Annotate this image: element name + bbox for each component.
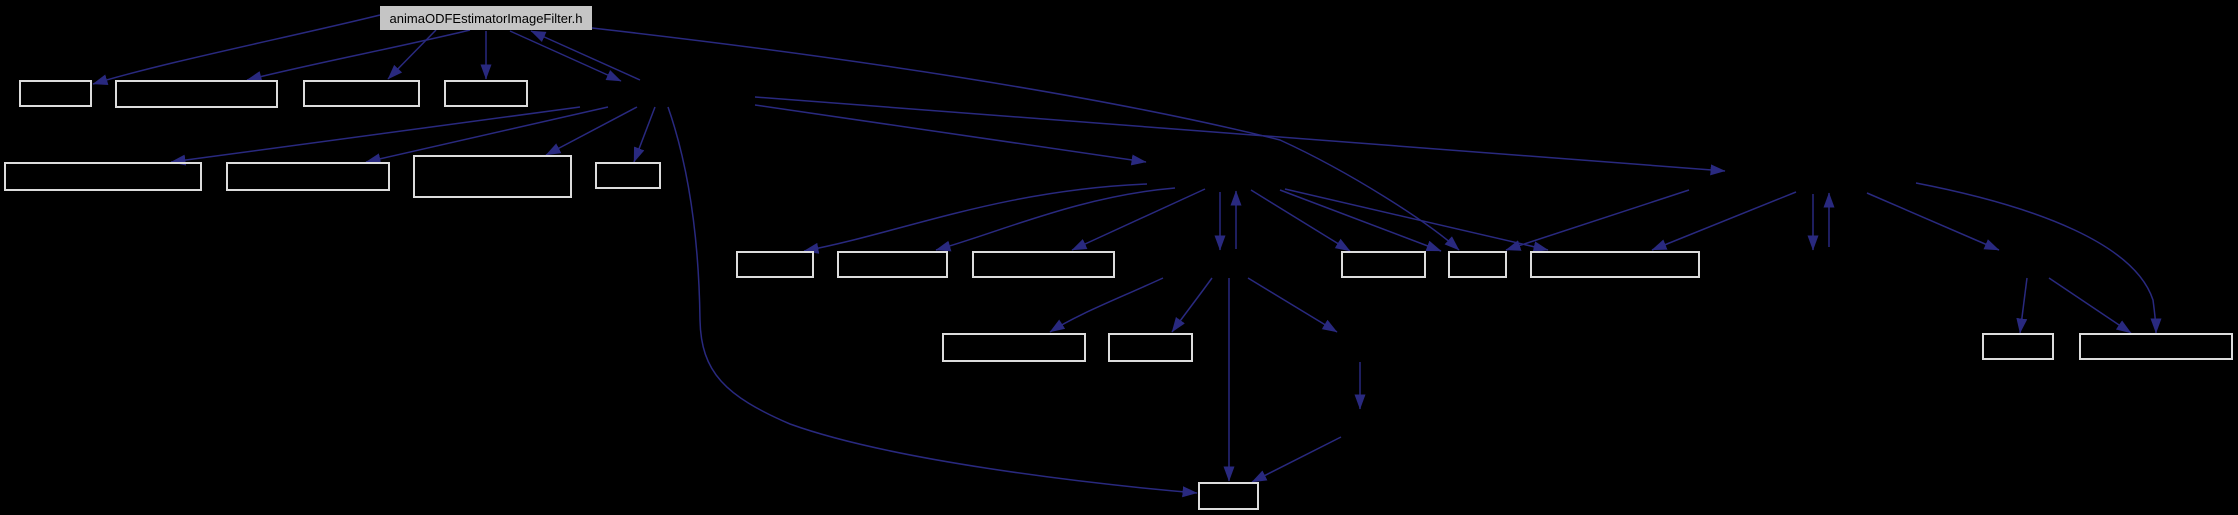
wire H7 to N2 <box>2049 278 2131 333</box>
node Z <box>1199 483 1258 509</box>
wire H7 to N1 <box>2020 278 2027 333</box>
wire H2 to R2 <box>1280 190 1441 251</box>
svg-text:animaODFEstimatorImageFilter.h: animaODFEstimatorImageFilter.h <box>390 11 583 26</box>
wire H3 to R2 <box>1506 190 1689 250</box>
wire H1 to root <box>531 31 640 80</box>
node R3 <box>1531 252 1699 277</box>
wire root to A1 <box>93 15 380 84</box>
wire H4 to M4 <box>1050 278 1163 332</box>
wire H2 to R1 <box>1251 190 1350 251</box>
wire H2 to M1 <box>804 184 1147 251</box>
wire H5b to Z <box>1252 437 1341 482</box>
wire H1 to B3 <box>546 107 637 155</box>
node M1 <box>737 252 813 277</box>
node A2 <box>116 81 277 107</box>
wire H2 to R3 <box>1285 189 1548 250</box>
node B2 <box>227 163 389 190</box>
wire root to A2 <box>247 30 470 80</box>
wire H1 to Z curve <box>668 107 1197 493</box>
wire H3 to N2 curve <box>1916 183 2156 333</box>
wire root to H1 <box>510 31 621 81</box>
node B4 <box>596 163 660 188</box>
node N2 <box>2080 334 2232 359</box>
wire H1 to B4 <box>634 107 655 162</box>
wire H3 to R3 <box>1652 192 1796 250</box>
node M5 <box>1109 334 1192 361</box>
node M2 <box>838 252 947 277</box>
node A3 <box>304 81 419 106</box>
wire H1 to H3 <box>755 97 1725 171</box>
node M3 <box>973 252 1114 277</box>
wire H4 to M5 <box>1172 278 1212 332</box>
wire root to A3 <box>388 30 436 79</box>
wire H1 to B1 <box>171 107 580 162</box>
wire H2 to M2 <box>936 188 1175 250</box>
node B3 two-line <box>414 156 571 197</box>
wire H2 to H4 <box>1219 192 1221 250</box>
wire H4 to H5a <box>1248 278 1337 332</box>
wire H1 to B2 <box>366 107 608 162</box>
wire H3 to H6 <box>1812 194 1814 250</box>
node A4 <box>445 81 527 106</box>
wire H6 to H3 <box>1828 193 1830 247</box>
node R1 <box>1342 252 1425 277</box>
wire root to R2 curve <box>592 28 1459 250</box>
wire H5a to H5b <box>1359 362 1361 409</box>
node B1 <box>5 163 201 190</box>
wire root to A4 <box>485 31 487 79</box>
wire H4 to Z <box>1228 278 1230 481</box>
wire H4 to H2 <box>1235 191 1237 249</box>
node A1 <box>20 81 91 106</box>
wire H3 to H7 <box>1867 193 1999 250</box>
node root animaODFEstimatorImageFilter.h <box>380 6 592 30</box>
node R2 <box>1449 252 1506 277</box>
node M4 <box>943 334 1085 361</box>
wire H2 to M3 <box>1072 189 1205 250</box>
node N1 <box>1983 334 2053 359</box>
wire H1 to H2 <box>755 105 1146 162</box>
